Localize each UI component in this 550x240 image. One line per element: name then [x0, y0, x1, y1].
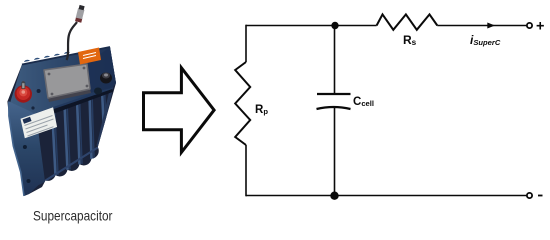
supercapacitor photo: gray top plate [44, 64, 91, 102]
supercapacitor photo: module top face [10, 47, 116, 114]
terminal: + open circle [527, 23, 532, 28]
supercapacitor photo: cell gap highlights [46, 86, 113, 181]
svg-text:Rp: Rp [255, 104, 268, 116]
supercapacitor photo: cell shoulder band [36, 89, 112, 117]
current arrowhead [487, 23, 495, 29]
svg-text:iSuperC: iSuperC [470, 33, 501, 47]
wire: capacitor branch upper [334, 26, 336, 94]
wire: capacitor branch lower [334, 107, 336, 196]
supercapacitor photo: module body silhouette [7, 47, 116, 196]
supercapacitor photo: cable connector [75, 5, 85, 23]
wire: top left segment [246, 25, 377, 27]
node: top junction [331, 22, 338, 29]
node: bottom junction [330, 192, 338, 200]
wire: left branch upper [245, 25, 247, 62]
supercapacitor photo: white product label [21, 107, 58, 138]
supercapacitor photo: orange warning label [78, 48, 101, 65]
supercapacitor photo: black terminal [100, 73, 112, 84]
capacitor Ccell bottom plate [317, 107, 351, 109]
svg-text:Ccell: Ccell [353, 96, 374, 108]
wire: top right segment [437, 25, 526, 27]
terminal: - open circle [527, 193, 532, 198]
supercapacitor photo: left end panel [9, 102, 45, 197]
capacitor Ccell top plate [317, 93, 351, 95]
label: - [538, 195, 543, 197]
resistor Rp [235, 62, 250, 145]
wire: bottom rail [246, 195, 527, 197]
supercapacitor photo: red terminal cap [15, 81, 32, 103]
wire: left branch lower [245, 145, 247, 196]
svg-text:Supercapacitor: Supercapacitor [33, 208, 113, 224]
svg-text:Rs: Rs [403, 33, 417, 47]
svg-text:+: + [536, 19, 544, 35]
block arrow [144, 68, 215, 153]
supercapacitor photo: cable [67, 22, 78, 60]
resistor Rs [377, 14, 438, 29]
